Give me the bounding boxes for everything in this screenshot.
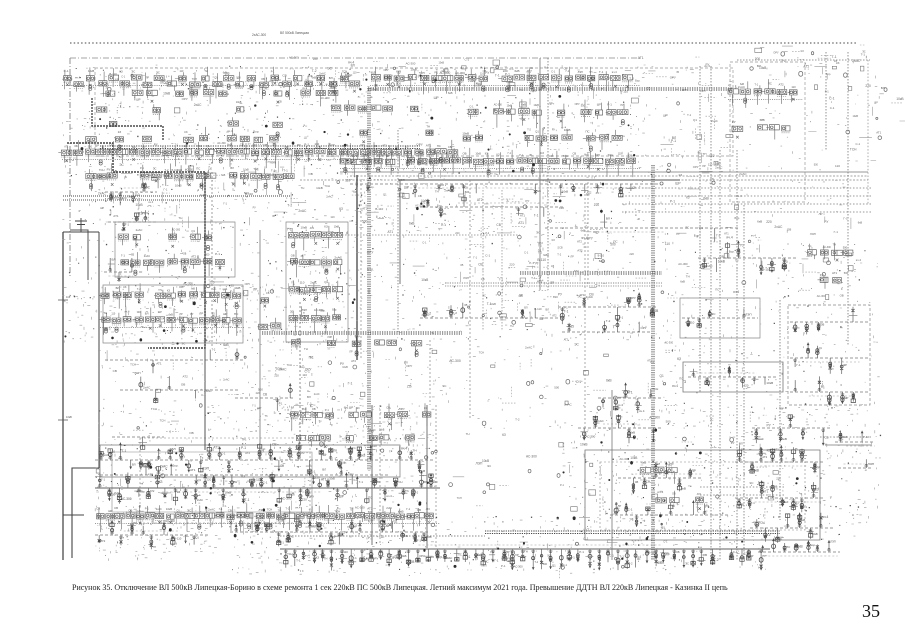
svg-text:ВЛ: ВЛ xyxy=(757,64,761,68)
svg-text:ЛР: ЛР xyxy=(618,504,622,508)
svg-text:Г-1: Г-1 xyxy=(245,498,250,502)
svg-text:Г-1: Г-1 xyxy=(508,152,512,155)
svg-text:ТСН: ТСН xyxy=(99,168,105,172)
svg-text:ОРУ: ОРУ xyxy=(701,89,707,93)
svg-text:АТ2: АТ2 xyxy=(538,241,543,245)
svg-text:АС-300: АС-300 xyxy=(586,435,596,439)
svg-text:АТ2: АТ2 xyxy=(577,240,582,244)
svg-text:500: 500 xyxy=(236,76,241,80)
svg-text:КЗ: КЗ xyxy=(339,207,343,211)
svg-text:220: 220 xyxy=(209,281,215,285)
svg-text:Р-1: Р-1 xyxy=(241,446,246,450)
svg-text:2хАС: 2хАС xyxy=(319,71,326,75)
cluster x620-700 y470-500 xyxy=(610,462,730,527)
svg-text:10кВ: 10кВ xyxy=(630,456,637,460)
svg-text:яч.4: яч.4 xyxy=(148,200,153,204)
svg-text:ОВ: ОВ xyxy=(291,253,295,257)
big bottom-right box xyxy=(585,450,820,540)
svg-text:РУ: РУ xyxy=(656,530,660,534)
svg-text:2хАС: 2хАС xyxy=(98,192,107,196)
svg-text:Бор.: Бор. xyxy=(320,310,325,313)
svg-text:В-110: В-110 xyxy=(762,268,770,272)
svg-text:ПС: ПС xyxy=(458,554,462,557)
svg-text:2хАС: 2хАС xyxy=(200,193,207,197)
svg-text:Т-1: Т-1 xyxy=(499,278,504,282)
svg-text:110: 110 xyxy=(300,281,305,285)
svg-text:ОВ: ОВ xyxy=(261,78,265,81)
cluster x700-800 y255 xyxy=(698,241,798,275)
svg-text:10кВ: 10кВ xyxy=(175,184,182,188)
svg-text:ОВ: ОВ xyxy=(672,493,676,496)
svg-text:220: 220 xyxy=(256,392,261,395)
svg-text:6кВ: 6кВ xyxy=(398,510,403,514)
svg-text:ОВ: ОВ xyxy=(183,253,187,255)
sparse stubs xyxy=(105,348,245,403)
svg-text:6кВ: 6кВ xyxy=(107,176,111,179)
svg-text:ОВ: ОВ xyxy=(302,512,308,516)
svg-text:Р-1: Р-1 xyxy=(215,252,220,256)
svg-text:ШР: ШР xyxy=(158,310,162,314)
svg-text:500: 500 xyxy=(368,510,373,514)
svg-text:АТ1: АТ1 xyxy=(190,468,196,472)
svg-text:Т-1: Т-1 xyxy=(283,168,288,172)
svg-text:ТН: ТН xyxy=(127,195,132,199)
svg-text:АТ2: АТ2 xyxy=(574,269,579,273)
svg-text:АТ2: АТ2 xyxy=(351,359,356,363)
svg-text:ЛЭП: ЛЭП xyxy=(830,540,836,544)
svg-text:6кВ: 6кВ xyxy=(396,69,401,73)
svg-text:ЛР: ЛР xyxy=(816,465,820,469)
svg-text:АТ1: АТ1 xyxy=(426,143,432,147)
svg-text:КЗ: КЗ xyxy=(316,556,320,560)
bl row2 xyxy=(95,471,440,506)
svg-text:ЭС: ЭС xyxy=(685,562,689,566)
svg-text:СВ: СВ xyxy=(646,87,650,91)
svg-text:ЛР: ЛР xyxy=(349,351,353,354)
svg-text:6кВ: 6кВ xyxy=(858,221,863,225)
svg-text:ЛР: ЛР xyxy=(550,281,554,285)
cell row TR2 xyxy=(732,118,790,140)
svg-text:КЗ: КЗ xyxy=(118,130,122,134)
svg-text:Р-1: Р-1 xyxy=(560,484,565,487)
svg-text:Q1: Q1 xyxy=(552,564,556,568)
right dotted bundle y185-216 xyxy=(622,188,872,212)
svg-text:ЛР: ЛР xyxy=(253,288,257,292)
svg-text:РУ: РУ xyxy=(706,63,710,67)
svg-text:яч.4: яч.4 xyxy=(856,258,862,262)
svg-text:Р-1: Р-1 xyxy=(670,199,675,203)
svg-text:РУ: РУ xyxy=(676,232,680,236)
svg-text:ОРУ: ОРУ xyxy=(682,88,688,92)
svg-text:ТСН: ТСН xyxy=(151,407,157,411)
svg-text:Г-1: Г-1 xyxy=(271,168,276,172)
svg-text:500: 500 xyxy=(554,385,559,389)
svg-text:АТ2: АТ2 xyxy=(300,452,305,455)
svg-text:Бор.: Бор. xyxy=(735,216,741,220)
svg-text:ОВ: ОВ xyxy=(840,294,844,298)
svg-text:РУ: РУ xyxy=(552,129,556,132)
svg-text:Q1: Q1 xyxy=(535,130,539,134)
svg-text:10кВ: 10кВ xyxy=(234,286,240,290)
svg-text:110: 110 xyxy=(618,152,622,155)
transformer box mid-right xyxy=(683,362,783,392)
svg-text:Г-1: Г-1 xyxy=(473,255,477,259)
svg-text:ТСН: ТСН xyxy=(652,387,658,391)
svg-text:ПС: ПС xyxy=(715,287,719,291)
svg-text:35: 35 xyxy=(676,71,679,74)
bl row3 xyxy=(95,503,440,532)
svg-text:110: 110 xyxy=(330,215,335,219)
svg-text:6кВ: 6кВ xyxy=(606,379,612,383)
svg-text:Р-1: Р-1 xyxy=(501,564,506,568)
svg-text:Р-1: Р-1 xyxy=(544,65,549,69)
svg-text:ВЛ: ВЛ xyxy=(273,143,277,147)
svg-text:110: 110 xyxy=(372,444,377,448)
svg-text:ОРУ: ОРУ xyxy=(420,71,426,75)
svg-text:В-110: В-110 xyxy=(172,169,179,172)
svg-text:ЛЭП: ЛЭП xyxy=(302,308,308,312)
svg-text:РУ: РУ xyxy=(190,313,194,316)
svg-text:Бор.: Бор. xyxy=(369,185,375,189)
svg-text:ОРУ: ОРУ xyxy=(641,326,647,330)
svg-text:СВ: СВ xyxy=(386,405,390,409)
right boxes x660-760 y295-340 xyxy=(680,298,760,338)
svg-text:Г-1: Г-1 xyxy=(495,74,500,78)
svg-text:10кВ: 10кВ xyxy=(371,88,378,92)
svg-text:500: 500 xyxy=(258,388,263,392)
svg-text:АТ1: АТ1 xyxy=(526,69,531,73)
svg-text:ВЛ: ВЛ xyxy=(672,136,676,140)
svg-text:ПС: ПС xyxy=(236,82,240,86)
left ladder vertical pair xyxy=(58,218,99,560)
svg-text:220: 220 xyxy=(782,260,788,264)
nested wiring loops xyxy=(100,438,400,523)
svg-text:АС-300: АС-300 xyxy=(185,168,193,171)
svg-text:АС-300: АС-300 xyxy=(649,415,660,419)
cluster x795-865 y250-285 xyxy=(806,243,853,289)
svg-text:яч.4: яч.4 xyxy=(635,555,641,559)
hatched dotted line pair xyxy=(63,196,290,200)
svg-text:ОВ: ОВ xyxy=(820,323,824,327)
svg-text:Т-2: Т-2 xyxy=(527,129,531,132)
svg-text:Г-1: Г-1 xyxy=(122,449,127,453)
svg-text:СВ: СВ xyxy=(481,277,485,281)
svg-text:Р-1: Р-1 xyxy=(271,72,275,74)
svg-text:АТ1: АТ1 xyxy=(113,214,119,218)
svg-text:ШР: ШР xyxy=(843,364,847,367)
bl row1 xyxy=(95,443,435,476)
svg-text:220: 220 xyxy=(455,232,460,235)
svg-text:500: 500 xyxy=(396,81,401,85)
svg-text:КЗ: КЗ xyxy=(801,49,804,53)
svg-text:ШР: ШР xyxy=(349,406,354,410)
svg-text:ЛЭП: ЛЭП xyxy=(476,461,484,465)
svg-text:2хАС: 2хАС xyxy=(715,166,723,170)
svg-text:220: 220 xyxy=(766,220,772,224)
svg-text:ТСН: ТСН xyxy=(287,552,293,556)
svg-text:ПС: ПС xyxy=(490,550,495,554)
svg-text:500: 500 xyxy=(88,145,93,149)
svg-text:яч.4: яч.4 xyxy=(223,288,228,291)
svg-text:220: 220 xyxy=(776,477,781,481)
svg-text:500: 500 xyxy=(205,253,210,256)
svg-text:ШР: ШР xyxy=(675,182,681,186)
svg-text:10кВ: 10кВ xyxy=(718,260,725,264)
svg-text:Р-1: Р-1 xyxy=(279,402,283,405)
svg-text:ТСН: ТСН xyxy=(324,184,330,188)
svg-text:220: 220 xyxy=(509,263,514,267)
svg-text:С-1: С-1 xyxy=(121,76,125,78)
svg-text:Q1: Q1 xyxy=(198,478,202,482)
svg-text:ТН: ТН xyxy=(426,125,430,129)
svg-text:2хАС: 2хАС xyxy=(156,508,162,511)
svg-text:ПС: ПС xyxy=(196,167,200,171)
bottom cluster left xyxy=(95,519,210,549)
svg-text:Т-1: Т-1 xyxy=(296,559,301,563)
svg-text:Р-1: Р-1 xyxy=(140,167,145,170)
svg-text:СВ: СВ xyxy=(507,84,511,88)
svg-text:АТ2: АТ2 xyxy=(150,489,155,493)
svg-text:110: 110 xyxy=(835,164,840,168)
svg-text:Т-1: Т-1 xyxy=(687,113,692,117)
svg-text:СВ: СВ xyxy=(564,67,568,70)
svg-text:С-1: С-1 xyxy=(465,58,470,62)
svg-text:6кВ: 6кВ xyxy=(680,280,685,284)
svg-text:АС-300: АС-300 xyxy=(526,455,537,459)
svg-text:Г-1: Г-1 xyxy=(660,561,665,565)
svg-text:10кВ: 10кВ xyxy=(534,104,540,107)
svg-text:Т-1: Т-1 xyxy=(755,83,759,86)
svg-text:АТ2: АТ2 xyxy=(382,143,387,147)
svg-text:СВ: СВ xyxy=(431,151,435,155)
svg-text:СВ: СВ xyxy=(676,550,680,554)
svg-text:АТ1: АТ1 xyxy=(156,362,162,366)
svg-text:АТ2: АТ2 xyxy=(697,493,702,496)
svg-text:Г-1: Г-1 xyxy=(223,201,227,205)
svg-text:Бор.: Бор. xyxy=(826,73,831,76)
bottom main row xyxy=(280,545,770,571)
right column cluster x790-870 y300-410 xyxy=(788,305,870,405)
svg-text:Т-1: Т-1 xyxy=(564,305,569,309)
svg-text:6кВ: 6кВ xyxy=(409,222,415,226)
svg-text:ЛР: ЛР xyxy=(179,313,183,316)
left block cells row2 xyxy=(98,285,245,343)
svg-text:ОРУ: ОРУ xyxy=(575,103,581,106)
svg-text:10кВ: 10кВ xyxy=(421,278,428,282)
svg-text:РУ: РУ xyxy=(558,293,563,297)
svg-text:ВЛ 500кВ Липецкая: ВЛ 500кВ Липецкая xyxy=(280,31,309,35)
svg-text:220: 220 xyxy=(313,57,318,61)
svg-text:ЛЭП: ЛЭП xyxy=(399,178,405,182)
svg-text:АТ1: АТ1 xyxy=(442,213,447,216)
svg-text:ТН: ТН xyxy=(519,88,523,92)
svg-text:ВЛ: ВЛ xyxy=(329,76,333,80)
svg-text:С-1: С-1 xyxy=(323,256,328,260)
svg-text:Т-2: Т-2 xyxy=(515,417,520,421)
wire h dotted y233 xyxy=(300,234,520,236)
svg-text:АС-300: АС-300 xyxy=(289,56,299,60)
svg-text:СВ: СВ xyxy=(353,190,357,194)
svg-text:Г-1: Г-1 xyxy=(586,529,590,532)
svg-text:10кВ: 10кВ xyxy=(342,366,348,369)
svg-text:110: 110 xyxy=(183,145,188,148)
svg-text:АТ1: АТ1 xyxy=(321,477,327,481)
svg-text:РУ: РУ xyxy=(732,120,736,124)
svg-text:яч.4: яч.4 xyxy=(125,309,130,313)
svg-text:ОВ: ОВ xyxy=(463,152,467,156)
svg-text:яч.4: яч.4 xyxy=(751,234,756,238)
svg-text:ЛЭП: ЛЭП xyxy=(578,71,583,74)
svg-text:110: 110 xyxy=(791,85,796,89)
right edge dotted vline xyxy=(867,60,869,205)
svg-text:ЛЭП: ЛЭП xyxy=(745,313,751,317)
svg-text:ЛР: ЛР xyxy=(666,552,670,556)
svg-text:С-1: С-1 xyxy=(583,537,588,541)
svg-text:6кВ: 6кВ xyxy=(760,118,765,122)
vertical bundles bottom-left xyxy=(372,405,436,548)
svg-text:яч.4: яч.4 xyxy=(581,236,588,240)
central dotted bus y333 xyxy=(262,332,462,357)
svg-text:Г-1: Г-1 xyxy=(751,501,755,505)
svg-text:10кВ: 10кВ xyxy=(301,226,307,230)
svg-text:ПС: ПС xyxy=(786,545,791,549)
svg-text:ЛР: ЛР xyxy=(819,212,823,216)
cluster x420-560 y205 xyxy=(420,195,565,218)
zone frame dash-dot xyxy=(70,58,640,278)
svg-text:ЭС: ЭС xyxy=(536,231,541,235)
svg-text:2хАС: 2хАС xyxy=(525,345,533,349)
svg-text:Т-1: Т-1 xyxy=(599,70,604,74)
svg-text:С-1: С-1 xyxy=(485,253,490,257)
left col small cluster xyxy=(104,258,144,282)
svg-text:ТН: ТН xyxy=(413,448,417,452)
svg-text:Г-1: Г-1 xyxy=(219,508,223,511)
svg-text:220: 220 xyxy=(629,252,634,256)
svg-text:АС-300: АС-300 xyxy=(494,104,503,107)
svg-text:Q1: Q1 xyxy=(191,229,195,233)
svg-text:110: 110 xyxy=(690,321,695,325)
cluster x835-875 y435-475 xyxy=(835,431,875,469)
svg-text:яч.4: яч.4 xyxy=(401,446,407,450)
svg-text:10кВ: 10кВ xyxy=(439,61,445,64)
svg-text:ТСН: ТСН xyxy=(287,363,292,367)
svg-text:АС-300: АС-300 xyxy=(355,506,365,510)
svg-text:АТ2: АТ2 xyxy=(552,315,557,318)
boxed cluster x115-235 y225-275 xyxy=(115,222,235,277)
svg-text:Т-2: Т-2 xyxy=(767,534,771,537)
svg-text:ШР: ШР xyxy=(434,96,439,100)
svg-text:ОРУ: ОРУ xyxy=(182,97,188,101)
svg-text:2хАС: 2хАС xyxy=(223,377,229,381)
svg-text:ОРУ: ОРУ xyxy=(160,80,168,84)
svg-text:ЛР: ЛР xyxy=(515,553,519,557)
svg-text:КЗ: КЗ xyxy=(324,225,328,229)
svg-text:ЛЭП: ЛЭП xyxy=(868,462,874,466)
svg-text:2хАС: 2хАС xyxy=(143,386,151,390)
svg-text:ШР: ШР xyxy=(597,103,601,107)
svg-text:ТСН: ТСН xyxy=(192,78,197,81)
bus row T1 xyxy=(350,183,660,197)
svg-text:ЭС: ЭС xyxy=(356,407,360,410)
cell row M0 y175 xyxy=(86,163,294,191)
svg-text:ЭС: ЭС xyxy=(482,295,486,298)
svg-text:ШР: ШР xyxy=(100,207,104,210)
svg-text:Т-2: Т-2 xyxy=(535,561,539,564)
cluster x560-660 y300-340 xyxy=(558,293,658,333)
svg-text:ТН: ТН xyxy=(233,480,237,484)
svg-text:СВ: СВ xyxy=(448,145,452,149)
svg-text:35: 35 xyxy=(231,284,235,288)
svg-text:500: 500 xyxy=(463,186,468,190)
svg-text:С-1: С-1 xyxy=(650,360,655,364)
svg-text:ТН: ТН xyxy=(241,438,246,442)
svg-text:10кВ: 10кВ xyxy=(334,226,340,229)
svg-text:ТСН: ТСН xyxy=(351,153,357,157)
svg-text:Р-1: Р-1 xyxy=(505,72,510,76)
bus row B3 mid xyxy=(420,303,560,318)
svg-text:АТ2: АТ2 xyxy=(564,339,569,342)
svg-text:С-1: С-1 xyxy=(563,563,568,567)
svg-text:СВ: СВ xyxy=(263,392,267,396)
svg-text:2хАС: 2хАС xyxy=(739,172,747,176)
svg-text:2хАС: 2хАС xyxy=(275,78,282,82)
right long tie lines y437-447 xyxy=(700,437,872,495)
svg-text:ШР: ШР xyxy=(386,154,390,158)
svg-text:яч.4: яч.4 xyxy=(657,490,663,494)
svg-text:В-110: В-110 xyxy=(109,72,117,76)
bottom dotted bus y532 xyxy=(280,531,780,536)
svg-text:ШР: ШР xyxy=(663,114,668,118)
svg-text:Т-2: Т-2 xyxy=(212,348,216,351)
svg-text:КЗ: КЗ xyxy=(551,264,554,268)
svg-text:35: 35 xyxy=(464,303,468,307)
svg-text:2хАС: 2хАС xyxy=(326,195,332,199)
svg-text:10кВ: 10кВ xyxy=(225,490,232,494)
svg-text:Т-2: Т-2 xyxy=(606,319,611,323)
svg-text:Г-1: Г-1 xyxy=(538,249,542,253)
svg-text:ЭС: ЭС xyxy=(131,69,135,73)
svg-text:АТ1: АТ1 xyxy=(520,214,525,218)
svg-text:35: 35 xyxy=(862,601,880,621)
svg-text:яч.4: яч.4 xyxy=(539,280,544,283)
svg-text:ШР: ШР xyxy=(874,102,878,105)
svg-text:ПС: ПС xyxy=(586,130,590,134)
svg-text:35: 35 xyxy=(596,191,600,195)
svg-text:Т-1: Т-1 xyxy=(309,509,314,513)
svg-text:500: 500 xyxy=(666,420,671,424)
svg-text:2хАС: 2хАС xyxy=(334,255,342,259)
cell row A2b fill xyxy=(109,100,418,137)
svg-text:35: 35 xyxy=(297,337,301,341)
svg-text:Т-2: Т-2 xyxy=(312,69,317,73)
svg-text:ШР: ШР xyxy=(540,317,546,321)
svg-text:35: 35 xyxy=(293,333,296,337)
vertical trunk wires xyxy=(205,58,780,560)
svg-text:С-1: С-1 xyxy=(524,250,529,254)
svg-text:Т-1: Т-1 xyxy=(405,489,410,493)
svg-text:2хАС: 2хАС xyxy=(298,209,307,213)
bl row1b fill xyxy=(100,463,390,485)
svg-text:500: 500 xyxy=(118,196,124,200)
svg-text:АТ1: АТ1 xyxy=(518,221,524,225)
svg-text:СВ: СВ xyxy=(825,436,829,440)
svg-text:АС-300: АС-300 xyxy=(281,496,292,500)
svg-text:РУ: РУ xyxy=(253,207,257,210)
svg-text:СВ: СВ xyxy=(272,443,277,447)
svg-text:Т-1: Т-1 xyxy=(564,310,569,314)
svg-text:ЭС: ЭС xyxy=(710,419,714,422)
svg-text:АТ2: АТ2 xyxy=(477,198,483,202)
